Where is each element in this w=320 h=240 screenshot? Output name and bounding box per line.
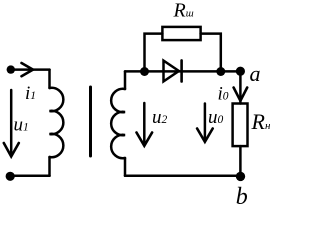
node a xyxy=(236,67,245,76)
arrow u2 xyxy=(143,103,146,142)
wire Rsh left vertical xyxy=(145,34,163,72)
wire primary top xyxy=(11,68,50,71)
transformer core xyxy=(89,87,92,156)
terminal dot top-left xyxy=(7,65,15,73)
inductor L1 primary winding xyxy=(50,88,64,157)
arrow u1 xyxy=(10,90,13,154)
wire primary stem top xyxy=(48,70,51,88)
wire node a down to Rn xyxy=(239,71,242,103)
wire secondary stem top xyxy=(124,71,127,89)
terminal dot bottom-left xyxy=(6,172,15,181)
node junction left Rsh tap xyxy=(140,67,149,76)
wire primary stem bottom xyxy=(48,157,51,176)
wire Rsh right vertical xyxy=(201,34,221,72)
svg-text:a: a xyxy=(250,61,261,86)
resistor Rsh xyxy=(162,27,200,40)
inductor L2 secondary winding xyxy=(111,89,125,158)
node b xyxy=(236,172,245,181)
arrow u0 xyxy=(204,104,207,139)
wire secondary top xyxy=(125,70,240,73)
current arrow i0 xyxy=(234,88,248,101)
wire primary bottom xyxy=(10,175,49,178)
wire secondary stem bottom xyxy=(124,158,127,176)
current arrow i1 xyxy=(22,63,34,76)
svg-text:b: b xyxy=(236,184,248,210)
resistor Rn xyxy=(233,104,248,147)
wire Rn to node b xyxy=(239,146,242,176)
diode VD xyxy=(164,61,179,82)
wire bottom secondary to node b xyxy=(125,175,241,178)
node junction right Rsh tap xyxy=(216,67,225,76)
